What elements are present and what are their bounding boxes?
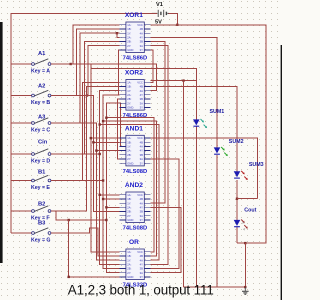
wire feeder XOR2p6 to OR p6 [106, 103, 119, 273]
svg-text:4Y: 4Y [140, 205, 143, 209]
svg-text:B2: B2 [38, 202, 45, 208]
junction AND1 p1 tap [90, 137, 92, 139]
wire B tap AND1 p2 [93, 141, 119, 143]
switch Key = G [32, 232, 35, 235]
switch Key = D [32, 153, 35, 156]
svg-text:XOR1: XOR1 [125, 12, 143, 19]
wire XOR1 pin7 link down [118, 50, 119, 95]
svg-text:74LS86D: 74LS86D [123, 56, 148, 62]
svg-text:3Y: 3Y [140, 275, 143, 279]
svg-text:Key = C: Key = C [31, 128, 50, 134]
svg-text:Key = G: Key = G [31, 238, 50, 244]
wire SUM3 cathode chain to Cout [236, 180, 238, 220]
svg-text:1B:: 1B: [127, 27, 131, 31]
svg-text:1A:: 1A: [127, 136, 131, 140]
svg-text:4B: 4B [140, 197, 143, 201]
wire E to XOR2 pin1 [51, 82, 120, 180]
svg-text:1A:: 1A: [127, 80, 131, 84]
svg-text:1A:: 1A: [127, 193, 131, 197]
svg-text:3A: 3A [140, 157, 143, 161]
wire A to XOR1 pin1 [51, 25, 120, 64]
svg-text:VCC: VCC [137, 193, 143, 197]
wire XOR2 out right [150, 80, 196, 82]
switch Key = F [32, 210, 35, 213]
wire XOR1 pin3 to pin4 [117, 33, 120, 37]
wire XOR1 4Y to SUM2 [150, 37, 217, 147]
junction AND1 p4 tap [95, 149, 97, 151]
IC OR 74LS32D [126, 249, 144, 280]
svg-text:VCC: VCC [137, 250, 143, 254]
wire feeder XOR2p3 to OR p4 [100, 91, 120, 265]
wire XOR2 p6b to AND1 p3 [120, 103, 121, 146]
svg-text:1A:: 1A: [127, 23, 131, 27]
junction row B [86, 94, 88, 96]
wire battery+ to left VCC bus [11, 13, 157, 233]
svg-text:2Y:: 2Y: [127, 101, 131, 105]
wire bus tap row A [11, 63, 32, 65]
wire OR p4R to XOR1 [150, 46, 167, 265]
wire B up to XOR1 pin6 [88, 46, 120, 96]
wire bus tap row D [11, 153, 32, 155]
svg-text:A1: A1 [38, 51, 46, 57]
svg-text:2Y:: 2Y: [127, 44, 131, 48]
svg-text:V1: V1 [156, 2, 163, 8]
svg-text:2B:: 2B: [127, 153, 131, 157]
wire jog to branch [237, 198, 258, 200]
svg-text:XOR2: XOR2 [125, 70, 143, 77]
wire F to XOR2 pin2 [51, 87, 120, 212]
wire A down long [71, 64, 120, 252]
wire SUM2 cathode [216, 155, 218, 287]
svg-text:1Y:: 1Y: [127, 201, 131, 205]
junction AND2 p1 tap [99, 194, 101, 196]
wire E to feeder [83, 180, 104, 182]
svg-text:2A:: 2A: [127, 262, 131, 266]
left window-edge strip [0, 22, 3, 263]
svg-text:GND:: GND: [127, 218, 134, 222]
svg-text:2A:: 2A: [127, 205, 131, 209]
svg-text:3Y: 3Y [140, 48, 143, 52]
svg-text:AND1: AND1 [125, 125, 143, 132]
IC XOR1 74LS86D [126, 22, 144, 53]
junction branch 3 [99, 123, 101, 125]
junction AND2 p2 tap [102, 198, 104, 200]
svg-text:Cout: Cout [244, 207, 256, 213]
wire B to XOR1 pin2 [51, 29, 120, 96]
svg-text:2A:: 2A: [127, 149, 131, 153]
wire bus tap row E [11, 180, 32, 182]
svg-text:VCC: VCC [137, 23, 143, 27]
svg-text:2B:: 2B: [127, 40, 131, 44]
svg-text:4B: 4B [140, 85, 143, 89]
svg-text:4Y: 4Y [140, 35, 143, 39]
svg-text:3B: 3B [140, 267, 143, 271]
svg-text:OR: OR [129, 239, 139, 246]
junction E feeder [102, 179, 104, 181]
wire feeder tap AND2 p2 [103, 198, 120, 200]
svg-text:Key = E: Key = E [31, 185, 50, 191]
svg-text:4A: 4A [140, 201, 143, 205]
wire D to XOR1 pin5 [51, 42, 120, 155]
switch Key = B [32, 94, 35, 97]
svg-text:4A: 4A [140, 258, 143, 262]
junction sum3 chain [236, 198, 238, 200]
svg-text:4Y: 4Y [140, 93, 143, 97]
wire F branch to OR pin7 [69, 220, 120, 277]
junction XOR1 pin3 branch [116, 32, 118, 34]
svg-text:1B:: 1B: [127, 140, 131, 144]
LED SUM2 [214, 147, 221, 153]
svg-text:VCC: VCC [137, 136, 143, 140]
switch Key = C [32, 122, 35, 125]
svg-text:GND:: GND: [127, 48, 134, 52]
switch Key = A [32, 63, 35, 66]
svg-text:Key = A: Key = A [31, 69, 50, 75]
wire feeder tap AND2 p1 [100, 194, 120, 196]
wire bus tap row B [11, 95, 32, 97]
svg-text:2A:: 2A: [127, 35, 131, 39]
svg-text:3A: 3A [140, 214, 143, 218]
junction branch 1 [105, 117, 107, 119]
svg-text:A2: A2 [38, 84, 45, 90]
wire SUM1 cathode [195, 126, 197, 287]
wire C down long [80, 123, 120, 260]
svg-text:2A:: 2A: [127, 93, 131, 97]
wire feeder XOR2p4 to OR p5 [103, 95, 120, 269]
right window-edge line [281, 45, 282, 300]
svg-text:1B:: 1B: [127, 254, 131, 258]
svg-text:2Y:: 2Y: [127, 214, 131, 218]
svg-text:4: 4 [243, 228, 245, 232]
svg-text:B3: B3 [38, 221, 46, 227]
wire A tap AND1 p1 [91, 137, 120, 139]
wire XOR2 out to SUM3 [150, 87, 237, 172]
IC XOR2 74LS86D [126, 80, 144, 111]
wire C to XOR1 pin3 [51, 33, 120, 123]
junction F jog [68, 219, 70, 221]
svg-text:1A:: 1A: [127, 250, 131, 254]
junction OR p7 corner [68, 276, 70, 278]
wire B down long [77, 96, 120, 212]
svg-text:3Y: 3Y [140, 106, 143, 110]
LED SUM3 [234, 171, 241, 177]
svg-text:4A: 4A [140, 31, 143, 35]
svg-text:4A: 4A [140, 89, 143, 93]
wire down to ground [244, 243, 246, 287]
svg-text:1Y:: 1Y: [127, 145, 131, 149]
svg-text:B1: B1 [38, 169, 46, 175]
junction cout ground [244, 242, 246, 244]
svg-text:3B: 3B [140, 153, 143, 157]
junction ground [244, 286, 246, 288]
svg-text:1B:: 1B: [127, 197, 131, 201]
svg-text:4A: 4A [140, 145, 143, 149]
svg-text:1Y:: 1Y: [127, 89, 131, 93]
junction branch 2 [102, 120, 104, 122]
svg-text:3B: 3B [140, 210, 143, 214]
svg-text:4B: 4B [140, 27, 143, 31]
wire Cout cathode [236, 227, 238, 243]
IC AND1 74LS08D [126, 135, 144, 166]
svg-text:2B:: 2B: [127, 267, 131, 271]
wire bus tap row C [11, 122, 32, 124]
wire XOR1 p7R down [150, 50, 152, 82]
junction D feeder [99, 153, 101, 155]
wire AND1 p1R branch right [150, 138, 257, 199]
svg-text:SUM2: SUM2 [229, 139, 244, 145]
svg-text:3A: 3A [140, 271, 143, 275]
branch right jog 3 [100, 125, 159, 261]
wire parallel ext to SUM1 [91, 69, 197, 120]
svg-text:4B: 4B [140, 140, 143, 144]
wire feeder tap AND2 p4 [106, 206, 119, 208]
branch right jog 1 [106, 118, 154, 252]
switch Key = E [32, 179, 35, 182]
junction AND1 p2 tap [92, 141, 94, 143]
wire XOR2 p5 to AND1 p6 [117, 99, 119, 159]
svg-text:74LS08D: 74LS08D [123, 226, 148, 232]
svg-text:1Y:: 1Y: [127, 31, 131, 35]
wire battery- drop [169, 13, 178, 24]
wire A ext to XOR2 p3R [91, 64, 157, 91]
svg-text:AND2: AND2 [125, 182, 143, 189]
svg-text:1Y:: 1Y: [127, 258, 131, 262]
svg-text:2Y:: 2Y: [127, 271, 131, 275]
svg-text:2B:: 2B: [127, 210, 131, 214]
svg-text:4B: 4B [140, 254, 143, 258]
IC AND2 74LS08D [126, 192, 144, 223]
svg-text:A3: A3 [38, 115, 46, 121]
svg-text:74LS08D: 74LS08D [123, 169, 148, 175]
svg-text:4Y: 4Y [140, 149, 143, 153]
svg-text:SUM3: SUM3 [249, 162, 264, 168]
svg-text:2Y:: 2Y: [127, 157, 131, 161]
svg-text:3B: 3B [140, 97, 143, 101]
svg-text:1B:: 1B: [127, 85, 131, 89]
wire bus tap row F [11, 210, 32, 212]
svg-text:GND:: GND: [127, 275, 134, 279]
LED Cout [234, 220, 241, 226]
LED SUM1 [193, 119, 200, 125]
junction F jog end [105, 219, 107, 221]
junction AND2 p4 tap [105, 206, 107, 208]
svg-text:3A: 3A [140, 44, 143, 48]
wire F jog down [56, 211, 106, 220]
junction battery drop on 5V rail [176, 24, 178, 26]
wire D to feeder [84, 153, 99, 155]
svg-text:Key = D: Key = D [31, 159, 50, 165]
wire OR p6R up [150, 207, 181, 272]
battery V1 [152, 12, 157, 14]
svg-text:Key = B: Key = B [31, 100, 50, 106]
branch right jog 2 [103, 121, 156, 256]
svg-text:3B: 3B [140, 40, 143, 44]
wire B tap AND2 p5 [93, 211, 119, 213]
svg-text:GND:: GND: [127, 106, 134, 110]
svg-text:74LS86D: 74LS86D [123, 113, 148, 119]
junction trunk [182, 79, 184, 81]
wire 5V rail right and down [150, 25, 266, 243]
wire C tap AND1 p4 [96, 150, 119, 152]
wire OR p5R up [150, 159, 179, 269]
ground symbol [244, 287, 246, 291]
ground run [184, 286, 246, 288]
svg-text:3Y: 3Y [140, 218, 143, 222]
svg-text:3Y: 3Y [140, 161, 143, 165]
svg-text:3A: 3A [140, 101, 143, 105]
wire AND2 p3R to XOR1 [150, 42, 164, 204]
junction row A [70, 63, 72, 65]
svg-text:2B:: 2B: [127, 97, 131, 101]
wire trunk to ground run [183, 81, 185, 288]
wire G jog to OR pin2 [51, 228, 120, 256]
svg-text:A1,2,3 both 1, output 111: A1,2,3 both 1, output 111 [68, 282, 214, 297]
svg-text:SUM1: SUM1 [210, 109, 225, 115]
wire bus tap row G [11, 232, 32, 234]
svg-text:Cin: Cin [38, 140, 48, 146]
svg-text:4Y: 4Y [140, 262, 143, 266]
svg-text:GND:: GND: [127, 161, 134, 165]
svg-text:VCC: VCC [137, 80, 143, 84]
